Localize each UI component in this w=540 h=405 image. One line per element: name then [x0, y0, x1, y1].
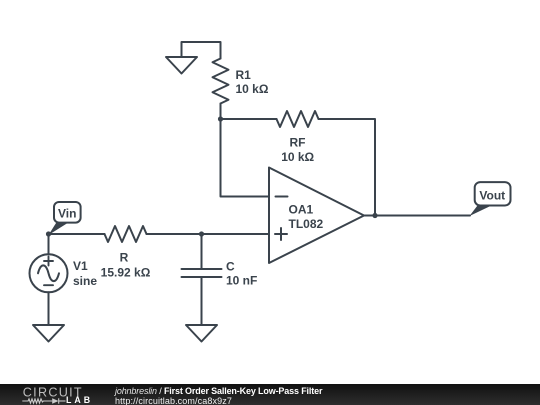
- svg-text:R: R: [120, 250, 129, 264]
- resistor R: [105, 226, 147, 242]
- svg-text:V1: V1: [73, 259, 88, 273]
- svg-text:LAB: LAB: [66, 395, 93, 405]
- wire node to capacitor C: [201, 234, 203, 269]
- svg-text:R1: R1: [236, 68, 252, 82]
- wire node to resistor RF: [221, 118, 277, 120]
- resistor RF: [277, 111, 319, 127]
- wire node to op-amp minus input: [221, 119, 270, 197]
- wire resistor R1 to node: [220, 104, 222, 120]
- svg-text:10 kΩ: 10 kΩ: [236, 82, 269, 96]
- node capacitor junction: [199, 231, 204, 236]
- wire Vin node to resistor R: [49, 233, 105, 235]
- wire resistor R to op-amp plus input: [147, 233, 270, 235]
- wire capacitor C to ground: [201, 277, 203, 325]
- wire op-amp output to Vout: [364, 215, 470, 217]
- node Vin flag: [49, 202, 81, 235]
- svg-text:10 nF: 10 nF: [226, 274, 257, 288]
- svg-text:15.92 kΩ: 15.92 kΩ: [101, 265, 151, 279]
- CircuitLab logo: [0, 384, 110, 405]
- voltage source V1: [30, 254, 68, 292]
- node Vout flag: [470, 182, 511, 216]
- node R1-RF junction: [218, 116, 223, 121]
- footer bar: [0, 384, 540, 405]
- capacitor C: [182, 269, 222, 277]
- svg-text:OA1: OA1: [289, 202, 314, 216]
- svg-text:C: C: [226, 260, 235, 274]
- ground at resistor R1 top: [166, 42, 221, 74]
- ground below source V1: [33, 325, 64, 342]
- svg-text:TL082: TL082: [289, 217, 324, 231]
- wire Vin node to source V1: [48, 234, 50, 255]
- svg-text:RF: RF: [290, 136, 306, 150]
- footer url text: [115, 396, 232, 405]
- wire source V1 to ground: [48, 292, 50, 325]
- svg-text:Vin: Vin: [58, 206, 76, 220]
- svg-text:Vout: Vout: [479, 189, 505, 203]
- svg-text:10 kΩ: 10 kΩ: [281, 150, 314, 164]
- ground below capacitor C: [186, 325, 217, 342]
- node Vin junction: [46, 231, 51, 236]
- resistor R1: [213, 59, 229, 104]
- node output junction: [372, 213, 377, 218]
- wire resistor RF to output node: [319, 119, 376, 216]
- op-amp OA1: [269, 168, 364, 264]
- svg-text:sine: sine: [73, 274, 97, 288]
- footer title text: [115, 386, 322, 396]
